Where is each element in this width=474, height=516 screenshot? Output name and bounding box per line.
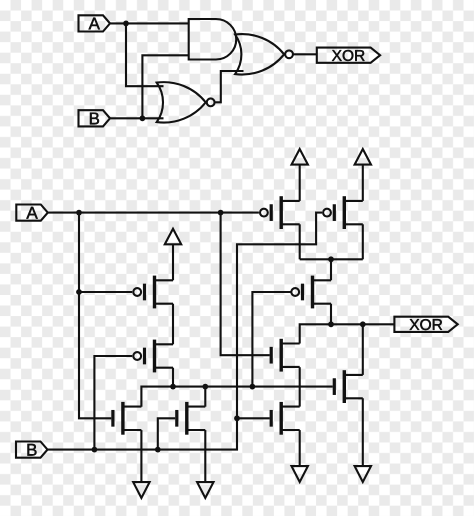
junction drain rail / Q3 source bbox=[328, 256, 334, 262]
gate U1 (AND gate) bbox=[189, 19, 237, 60]
wire Q10 source to ground bbox=[362, 398, 364, 466]
gate U2 (NOR gate) bbox=[157, 82, 215, 122]
wire Q3 drain down to output rail bbox=[330, 304, 332, 325]
wire P4 gate tap bbox=[79, 291, 132, 293]
wire Q4 drain to Q5 source bbox=[172, 304, 174, 345]
wire B branch up to P5 gate bbox=[94, 356, 132, 450]
wire B branch up to AND lower input bbox=[142, 55, 188, 118]
ground symbol GND1 bbox=[133, 482, 149, 498]
junction on B rail bbox=[140, 115, 146, 121]
output flag XOR (CMOS) bbox=[394, 317, 457, 332]
wire VDD2 stem bbox=[362, 165, 364, 201]
wire Q1 drain down bbox=[299, 224, 301, 259]
input flag A (CMOS) bbox=[16, 205, 48, 221]
wire Q6 source to ground bbox=[140, 430, 142, 482]
junction A branch / P4 gate bbox=[76, 289, 82, 295]
wire A branch down to NOR1 top input bbox=[126, 23, 164, 86]
power VDD symbol VDD2 bbox=[355, 149, 371, 165]
wire NOR1 output to NOR2 lower input bbox=[215, 71, 244, 102]
transistor Q9 (NMOS, gate B) bbox=[271, 402, 300, 435]
wire output rail bbox=[300, 324, 395, 343]
transistor Q8 (NMOS, gate A) bbox=[271, 339, 300, 372]
input flag B (gate-level) bbox=[79, 110, 111, 126]
wire Q10 drain riser bbox=[362, 324, 364, 375]
ground symbol GND4 bbox=[355, 466, 371, 482]
wire A branch down to N3 gate bbox=[221, 213, 270, 356]
wire N5 gate tap bbox=[237, 417, 270, 419]
junction B rail / N2 gate branch bbox=[155, 447, 161, 453]
wire VDD1 stem bbox=[299, 165, 301, 201]
wire A rail (top circuit) bbox=[110, 22, 189, 24]
wire NOR net rail bbox=[141, 387, 332, 407]
wire Q5 drain down to NOR net bbox=[172, 368, 174, 387]
wire Q7 drain riser bbox=[204, 387, 206, 407]
transistor Q4 (PMOS, gate A) bbox=[133, 276, 173, 309]
wire Q1-Q2 drain rail bbox=[300, 258, 363, 260]
transistor Q10 (NMOS, gate NOR) bbox=[334, 370, 363, 403]
junction NOR net / Q5 drain bbox=[170, 384, 176, 390]
wire B rail to P2 gate (via right riser) bbox=[48, 213, 323, 450]
junction B riser / N5 gate bbox=[234, 415, 240, 421]
ground symbol GND2 bbox=[197, 482, 213, 498]
transistor Q5 (PMOS, gate B) bbox=[133, 340, 173, 373]
wire NOR2 output to XOR flag bbox=[293, 53, 317, 55]
junction A rail / left branch bbox=[76, 210, 82, 216]
output flag XOR (gate-level) bbox=[317, 48, 380, 63]
wire A left branch down to N1 gate bbox=[79, 213, 111, 419]
wire Q3 source riser bbox=[330, 259, 332, 280]
transistor Q6 (NMOS, gate A) bbox=[113, 402, 141, 435]
junction on A rail bbox=[123, 21, 129, 27]
wire Q2 drain down bbox=[362, 224, 364, 259]
transistor Q3 (PMOS, gate NOR) bbox=[291, 276, 331, 309]
junction NOR net / Q3 gate riser bbox=[250, 384, 256, 390]
gate U3 (NOR gate) bbox=[235, 34, 293, 74]
wire A rail (CMOS) bbox=[48, 212, 259, 214]
junction output rail / Q10 drain bbox=[360, 321, 366, 327]
transistor Q7 (NMOS, gate B) bbox=[177, 402, 206, 435]
wire B branch up to N2 gate bbox=[158, 418, 175, 449]
transistor Q2 (PMOS, gate B) bbox=[323, 196, 363, 229]
wire Q7 source to ground bbox=[204, 430, 206, 482]
input flag B (CMOS) bbox=[16, 442, 48, 458]
junction output rail / Q3 drain bbox=[328, 321, 334, 327]
junction NOR net / Q7 drain bbox=[202, 384, 208, 390]
wire Q3 gate from NOR net bbox=[252, 292, 291, 387]
transistor Q1 (PMOS, gate A) bbox=[260, 196, 300, 229]
power VDD symbol VDD1 bbox=[292, 149, 308, 165]
wire Q9 source to ground bbox=[299, 430, 301, 466]
input flag A (gate-level) bbox=[79, 15, 111, 31]
power VDD symbol VDD3 bbox=[165, 229, 181, 245]
junction A rail / N3 branch bbox=[218, 210, 224, 216]
wire Q8 drain to Q9 source bbox=[299, 367, 301, 406]
wire B rail (top circuit) bbox=[110, 117, 164, 119]
junction B rail / P5 gate branch bbox=[92, 447, 98, 453]
ground symbol GND3 bbox=[292, 466, 308, 482]
wire VDD3 stem bbox=[172, 244, 174, 280]
